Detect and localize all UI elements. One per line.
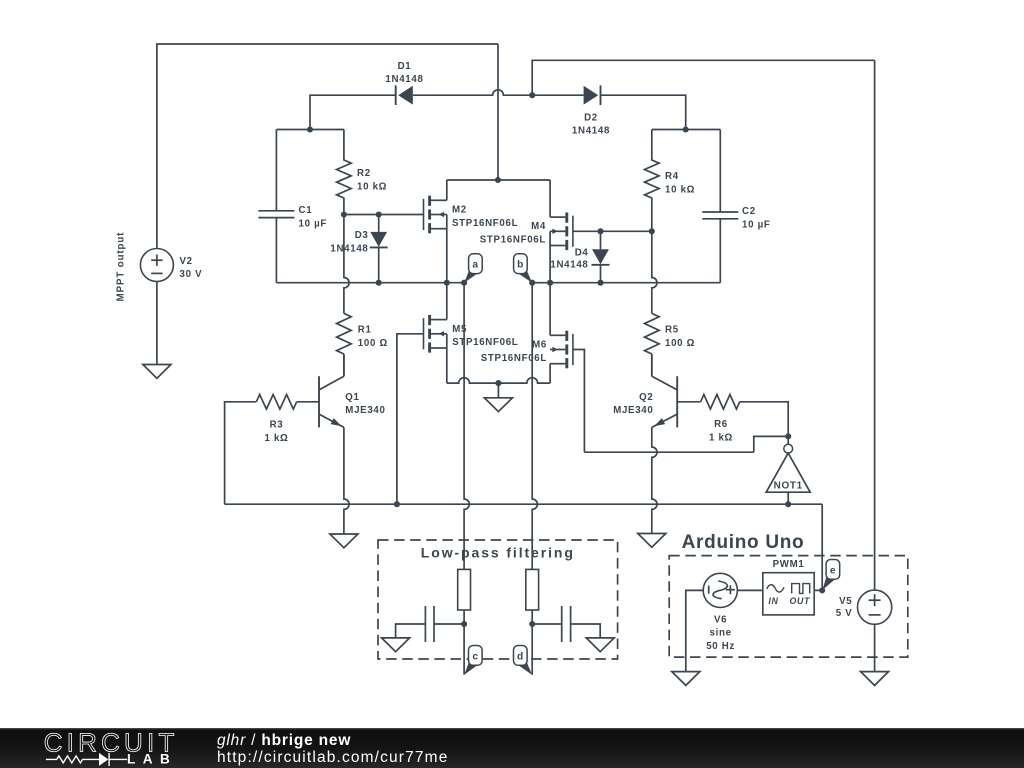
svg-text:Q1: Q1 <box>345 392 359 403</box>
inverter NOT1 <box>766 436 810 504</box>
junction <box>819 587 825 593</box>
svg-text:M4: M4 <box>531 221 546 232</box>
node flag c <box>464 646 482 675</box>
junction <box>785 433 791 439</box>
svg-text:d: d <box>517 651 524 662</box>
wire <box>344 215 349 314</box>
svg-text:10 kΩ: 10 kΩ <box>665 185 695 196</box>
junction <box>495 380 501 386</box>
svg-text:Q2: Q2 <box>639 392 653 403</box>
wire <box>275 218 277 283</box>
capacitor C1 10uF <box>258 205 327 229</box>
wire <box>396 624 426 638</box>
svg-text:MPPT output: MPPT output <box>116 232 127 302</box>
footer bar <box>0 728 1024 768</box>
wire node b to d <box>532 283 537 570</box>
wire <box>573 230 652 232</box>
wire <box>225 402 257 504</box>
wire <box>549 231 551 282</box>
wire <box>446 348 448 383</box>
mosfet M2 STP16NF06L <box>424 196 519 234</box>
wire <box>310 95 396 129</box>
ground below Q2 <box>638 534 666 548</box>
svg-text:C2: C2 <box>742 206 756 217</box>
svg-text:NOT1: NOT1 <box>774 481 803 492</box>
wire node b <box>532 282 720 284</box>
wire <box>549 364 551 383</box>
svg-text:e: e <box>830 565 836 576</box>
resistor R3 1k <box>256 395 296 445</box>
mosfet M5 STP16NF06L <box>424 315 519 353</box>
wire <box>737 589 762 591</box>
wire <box>397 334 424 504</box>
junction <box>529 92 535 98</box>
wire <box>275 130 277 211</box>
wire <box>447 179 550 181</box>
ground below V5 <box>861 672 889 686</box>
wire <box>446 180 448 200</box>
lp capacitor right <box>562 606 571 642</box>
wire <box>874 60 876 590</box>
svg-text:10 µF: 10 µF <box>742 220 770 231</box>
wire <box>413 90 584 95</box>
junction <box>597 228 603 234</box>
diode D4 1N4148 <box>550 231 609 282</box>
wire <box>601 95 686 129</box>
wire <box>652 427 657 533</box>
svg-text:1 kΩ: 1 kΩ <box>709 433 733 444</box>
svg-text:D1: D1 <box>398 61 412 72</box>
svg-text:1 kΩ: 1 kΩ <box>264 433 288 444</box>
junction <box>649 228 655 234</box>
wire <box>652 231 657 313</box>
wire <box>584 451 753 453</box>
resistor R6 1k <box>701 395 740 444</box>
svg-text:MJE340: MJE340 <box>345 405 385 416</box>
lp resistor left <box>458 569 471 610</box>
ground lp right <box>586 638 614 652</box>
svg-text:STP16NF06L: STP16NF06L <box>481 353 547 364</box>
junction <box>461 621 467 627</box>
svg-text:1N4148: 1N4148 <box>385 74 423 85</box>
svg-text:STP16NF06L: STP16NF06L <box>452 337 518 348</box>
wire <box>686 590 703 671</box>
junction <box>307 126 313 132</box>
svg-text:100 Ω: 100 Ω <box>665 338 695 349</box>
mosfet M4 STP16NF06L <box>480 213 573 251</box>
diode D3 1N4148 <box>330 215 387 283</box>
node flag a <box>464 254 482 283</box>
wire <box>343 354 345 376</box>
svg-text:10 µF: 10 µF <box>299 218 327 229</box>
svg-text:D4: D4 <box>575 247 589 258</box>
node flag e <box>822 560 839 591</box>
annotation box Low-pass filtering <box>378 540 618 659</box>
junction <box>461 280 467 286</box>
voltage source V6 sine 50Hz <box>703 573 737 652</box>
ground lp left <box>382 638 410 652</box>
svg-text:V2: V2 <box>180 256 193 267</box>
svg-text:MJE340: MJE340 <box>613 405 653 416</box>
capacitor C2 10uF <box>702 206 770 230</box>
junction <box>394 501 400 507</box>
wire <box>531 610 533 624</box>
wire <box>225 503 823 505</box>
svg-text:c: c <box>472 651 478 662</box>
wire node a to c <box>464 283 469 570</box>
wire <box>157 44 498 249</box>
wire <box>651 354 653 376</box>
svg-text:STP16NF06L: STP16NF06L <box>480 235 546 246</box>
wire <box>446 283 448 320</box>
svg-text:C1: C1 <box>299 205 313 216</box>
wire <box>344 427 349 534</box>
resistor R2 10k <box>337 130 388 215</box>
svg-text:D2: D2 <box>584 113 598 124</box>
svg-text:1N4148: 1N4148 <box>572 126 610 137</box>
wire <box>652 129 721 131</box>
lp capacitor left <box>425 606 434 642</box>
svg-text:IN: IN <box>768 596 778 606</box>
svg-text:V6: V6 <box>714 615 727 626</box>
svg-text:5 V: 5 V <box>836 608 853 619</box>
svg-text:D3: D3 <box>355 230 369 241</box>
svg-text:R6: R6 <box>714 419 728 430</box>
wire <box>740 402 789 437</box>
ground below Q1 <box>330 534 358 548</box>
wire <box>463 610 465 624</box>
diode D2 1N4148 <box>572 85 610 136</box>
junction <box>529 621 535 627</box>
wire <box>549 283 551 336</box>
pwm block PWM1 <box>763 559 814 615</box>
transistor Q1 MJE340 <box>297 376 386 427</box>
wire <box>874 624 876 671</box>
wire <box>549 180 551 217</box>
wire <box>344 214 424 216</box>
wire <box>463 624 465 675</box>
wire <box>276 129 344 131</box>
svg-text:STP16NF06L: STP16NF06L <box>452 218 518 229</box>
svg-text:R4: R4 <box>665 171 679 182</box>
resistor R4 10k <box>645 130 696 232</box>
junction <box>547 280 553 286</box>
junction <box>529 280 535 286</box>
wire <box>434 623 464 625</box>
junction <box>785 501 791 507</box>
voltage source V2 (MPPT output, 30 V) <box>140 249 202 282</box>
junction <box>444 280 450 286</box>
wire <box>497 44 499 180</box>
voltage source V5 5V <box>836 590 892 624</box>
CircuitLab logo <box>30 728 230 768</box>
junction <box>376 211 382 217</box>
wire <box>446 334 448 348</box>
svg-text:V5: V5 <box>839 596 852 607</box>
annotation box Arduino Uno <box>669 532 908 657</box>
wire <box>651 354 653 376</box>
wire <box>532 60 874 95</box>
ground below V2 <box>143 282 171 379</box>
svg-text:M2: M2 <box>452 205 467 216</box>
svg-text:R5: R5 <box>665 325 679 336</box>
svg-text:10 kΩ: 10 kΩ <box>357 182 387 193</box>
svg-text:M6: M6 <box>532 340 547 351</box>
svg-text:100 Ω: 100 Ω <box>358 338 388 349</box>
wire node a <box>276 282 464 284</box>
wire <box>754 436 788 452</box>
svg-text:PWM1: PWM1 <box>773 559 805 570</box>
svg-text:a: a <box>472 260 478 271</box>
svg-text:sine: sine <box>710 628 732 639</box>
node flag b <box>514 254 533 283</box>
svg-text:Low-pass filtering: Low-pass filtering <box>421 545 575 561</box>
svg-text:30 V: 30 V <box>180 269 203 280</box>
junction <box>597 280 603 286</box>
wire <box>446 215 448 283</box>
wire <box>447 378 550 383</box>
svg-text:50 Hz: 50 Hz <box>706 641 735 652</box>
node flag d <box>514 646 533 675</box>
junction <box>376 280 382 286</box>
transistor Q2 MJE340 <box>613 376 700 427</box>
ground below M5 M6 <box>484 383 512 412</box>
wire <box>814 589 822 591</box>
lp resistor right <box>526 569 539 610</box>
wire <box>532 623 562 625</box>
wire <box>719 130 721 213</box>
junction <box>495 177 501 183</box>
svg-text:OUT: OUT <box>789 596 810 606</box>
resistor R1 100 <box>337 313 388 354</box>
node label MPPT output <box>116 232 127 302</box>
footer title glhr / hbrige new <box>217 732 351 750</box>
wire <box>821 504 823 590</box>
svg-text:1N4148: 1N4148 <box>550 260 588 271</box>
wire <box>343 354 345 376</box>
svg-text:1N4148: 1N4148 <box>330 243 368 254</box>
wire <box>571 624 601 638</box>
resistor R5 100 <box>645 313 696 354</box>
svg-text:LAB: LAB <box>127 751 177 766</box>
diode D1 1N4148 <box>385 61 423 105</box>
junction <box>341 211 347 217</box>
svg-text:R3: R3 <box>270 420 284 431</box>
ground below V6 <box>672 672 700 686</box>
junction <box>683 126 689 132</box>
svg-text:Arduino Uno: Arduino Uno <box>682 532 805 553</box>
svg-text:R2: R2 <box>357 168 371 179</box>
wire <box>531 624 533 675</box>
mosfet M6 STP16NF06L <box>481 331 573 369</box>
footer url <box>217 749 448 767</box>
svg-text:b: b <box>517 260 524 271</box>
wire <box>573 350 585 453</box>
wire <box>719 219 721 283</box>
svg-text:R1: R1 <box>358 325 372 336</box>
